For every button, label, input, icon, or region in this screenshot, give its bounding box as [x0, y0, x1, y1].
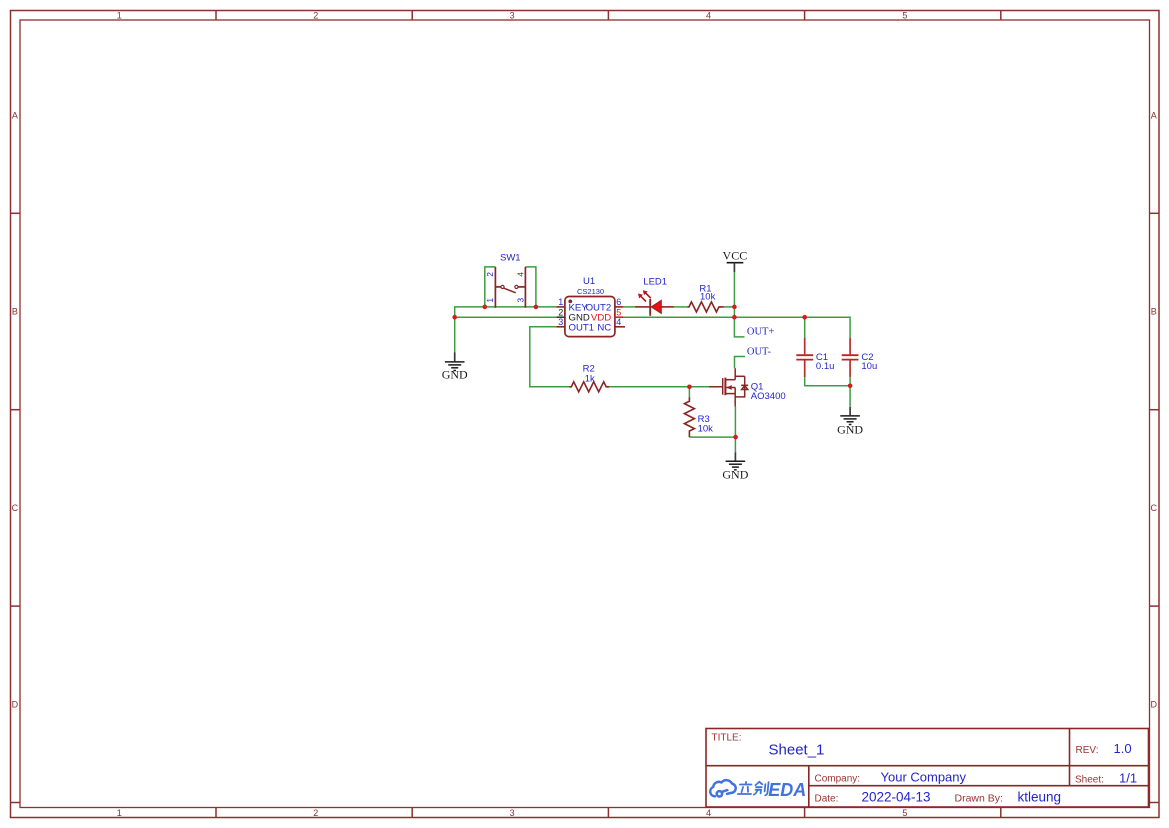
wire node to R3	[688, 387, 690, 398]
node junction R1/VCC	[732, 305, 737, 310]
svg-text:VCC: VCC	[723, 249, 748, 263]
svg-text:1/1: 1/1	[1119, 771, 1137, 786]
node junction SW1 pin3 rail	[534, 305, 539, 310]
svg-text:REV:: REV:	[1076, 745, 1099, 756]
svg-text:Date:: Date:	[815, 794, 839, 805]
U1 pin 5 VDD	[615, 316, 624, 318]
logo	[710, 780, 806, 800]
wire R3 bottom to Q1 source node	[689, 436, 735, 438]
wire R1 to VCC node	[724, 306, 735, 308]
svg-text:B: B	[12, 307, 18, 317]
svg-text:10k: 10k	[698, 423, 714, 434]
svg-text:5: 5	[616, 308, 621, 318]
resistor R1 10k	[687, 284, 724, 312]
U1 pin 1 KEY	[556, 306, 565, 308]
svg-text:B: B	[1151, 307, 1157, 317]
transistor Q1 AO3400 NMOS	[709, 368, 785, 406]
wire C2 bottom to right GND	[849, 377, 851, 407]
power VCC	[723, 249, 748, 273]
wire VDD rail from U1 pin5 to C2	[623, 317, 850, 338]
svg-text:NC: NC	[597, 323, 611, 334]
svg-text:A: A	[1151, 110, 1157, 120]
svg-text:4: 4	[706, 11, 711, 21]
wire VCC stem	[733, 272, 735, 307]
node junction left GND tap	[452, 315, 457, 320]
svg-text:1.0: 1.0	[1114, 741, 1132, 756]
node junction Q1 source / R3	[733, 435, 738, 440]
wire U1 pin6 to LED1 cathode	[623, 306, 635, 308]
svg-text:ktleung: ktleung	[1018, 790, 1062, 805]
ground right GND (C2)	[837, 407, 863, 436]
wire C1 bottom link to C2	[805, 377, 850, 386]
resistor R3 10k	[684, 397, 713, 437]
node junction VCC/VDD rail	[732, 315, 737, 320]
node junction C2 bottom	[848, 384, 853, 389]
svg-text:5: 5	[902, 808, 907, 818]
wire LED1 anode to R1	[674, 306, 688, 308]
svg-text:Drawn By:: Drawn By:	[955, 793, 1003, 805]
wire GND rail to U1 pin 2	[455, 316, 557, 318]
svg-text:OUT-: OUT-	[747, 346, 772, 357]
svg-text:GND: GND	[837, 422, 863, 436]
wire C1 top branch	[804, 317, 806, 338]
svg-text:1: 1	[117, 808, 122, 818]
LED LED1	[635, 276, 674, 316]
svg-text:3: 3	[510, 11, 515, 21]
svg-text:D: D	[12, 700, 19, 710]
node junction SW1 pin1 rail	[483, 305, 488, 310]
node junction R2/R3 gate	[687, 385, 692, 390]
svg-text:1: 1	[117, 11, 122, 21]
TITLE BLOCK (decorative)	[706, 729, 1149, 808]
svg-text:C: C	[12, 503, 19, 513]
svg-text:Sheet_1: Sheet_1	[769, 742, 825, 759]
svg-text:Sheet:: Sheet:	[1075, 775, 1104, 786]
wire OUT+ flag	[734, 317, 744, 337]
svg-text:GND: GND	[722, 467, 748, 481]
wire VCC node down to VDD rail	[733, 307, 735, 317]
svg-text:1k: 1k	[585, 373, 595, 384]
svg-text:EDA: EDA	[768, 780, 806, 800]
svg-text:1: 1	[485, 298, 495, 303]
svg-text:SW1: SW1	[500, 252, 521, 263]
svg-text:0.1u: 0.1u	[816, 361, 835, 372]
svg-text:2: 2	[313, 808, 318, 818]
svg-text:GND: GND	[442, 368, 468, 382]
svg-text:TITLE:: TITLE:	[712, 733, 742, 744]
wire SW1 pin2 loop	[485, 267, 496, 307]
svg-text:10u: 10u	[861, 361, 877, 372]
U1 pin 4 NC	[615, 326, 625, 328]
svg-text:OUT+: OUT+	[747, 327, 775, 338]
svg-text:2: 2	[313, 11, 318, 21]
svg-text:4: 4	[706, 808, 711, 818]
svg-text:2022-04-13: 2022-04-13	[862, 790, 931, 805]
svg-text:C: C	[1151, 503, 1158, 513]
svg-text:OUT1: OUT1	[569, 323, 595, 334]
U1 pin 2 GND	[556, 316, 565, 318]
wire to left GND symbol	[454, 317, 456, 352]
svg-text:Your Company: Your Company	[881, 770, 967, 785]
svg-text:Company:: Company:	[815, 774, 861, 785]
svg-text:AO3400: AO3400	[751, 391, 786, 402]
capacitor C1 0.1u	[796, 338, 834, 377]
svg-text:4: 4	[515, 272, 525, 277]
ground bottom GND (Q1 source / R3)	[722, 452, 748, 481]
svg-text:2: 2	[558, 308, 563, 318]
wire KEY rail from left corner to U1 pin 1	[455, 307, 557, 317]
wire U1 pin3 OUT1 to R2	[530, 327, 569, 387]
svg-text:A: A	[12, 110, 18, 120]
svg-text:2: 2	[485, 272, 495, 277]
svg-text:D: D	[1151, 700, 1158, 710]
svg-text:3: 3	[558, 317, 563, 327]
U1 pin 3 OUT1	[556, 326, 565, 328]
capacitor C2 10u	[842, 338, 878, 377]
svg-text:5: 5	[902, 11, 907, 21]
ground left GND	[442, 352, 468, 381]
svg-text:4: 4	[616, 317, 621, 327]
wire OUT- flag to Q1 drain	[735, 357, 746, 369]
resistor R2 1k	[569, 363, 609, 391]
svg-text:10k: 10k	[700, 291, 716, 302]
wire R2 to Q1 gate	[609, 386, 710, 388]
svg-text:CS2130: CS2130	[577, 287, 604, 296]
svg-text:LED1: LED1	[643, 276, 667, 287]
U1 pin 6 OUT2	[615, 306, 624, 308]
svg-text:1: 1	[558, 297, 563, 307]
node junction C1 tap	[802, 315, 807, 320]
wire Q1 source to bottom GND	[734, 406, 736, 452]
switch SW1	[495, 252, 525, 307]
wire SW1 pin4 loop	[525, 267, 536, 307]
svg-text:6: 6	[616, 297, 621, 307]
svg-text:3: 3	[510, 808, 515, 818]
svg-text:3: 3	[515, 298, 525, 303]
svg-text:U1: U1	[583, 276, 595, 287]
IC U1 CS2130 body	[565, 276, 615, 336]
